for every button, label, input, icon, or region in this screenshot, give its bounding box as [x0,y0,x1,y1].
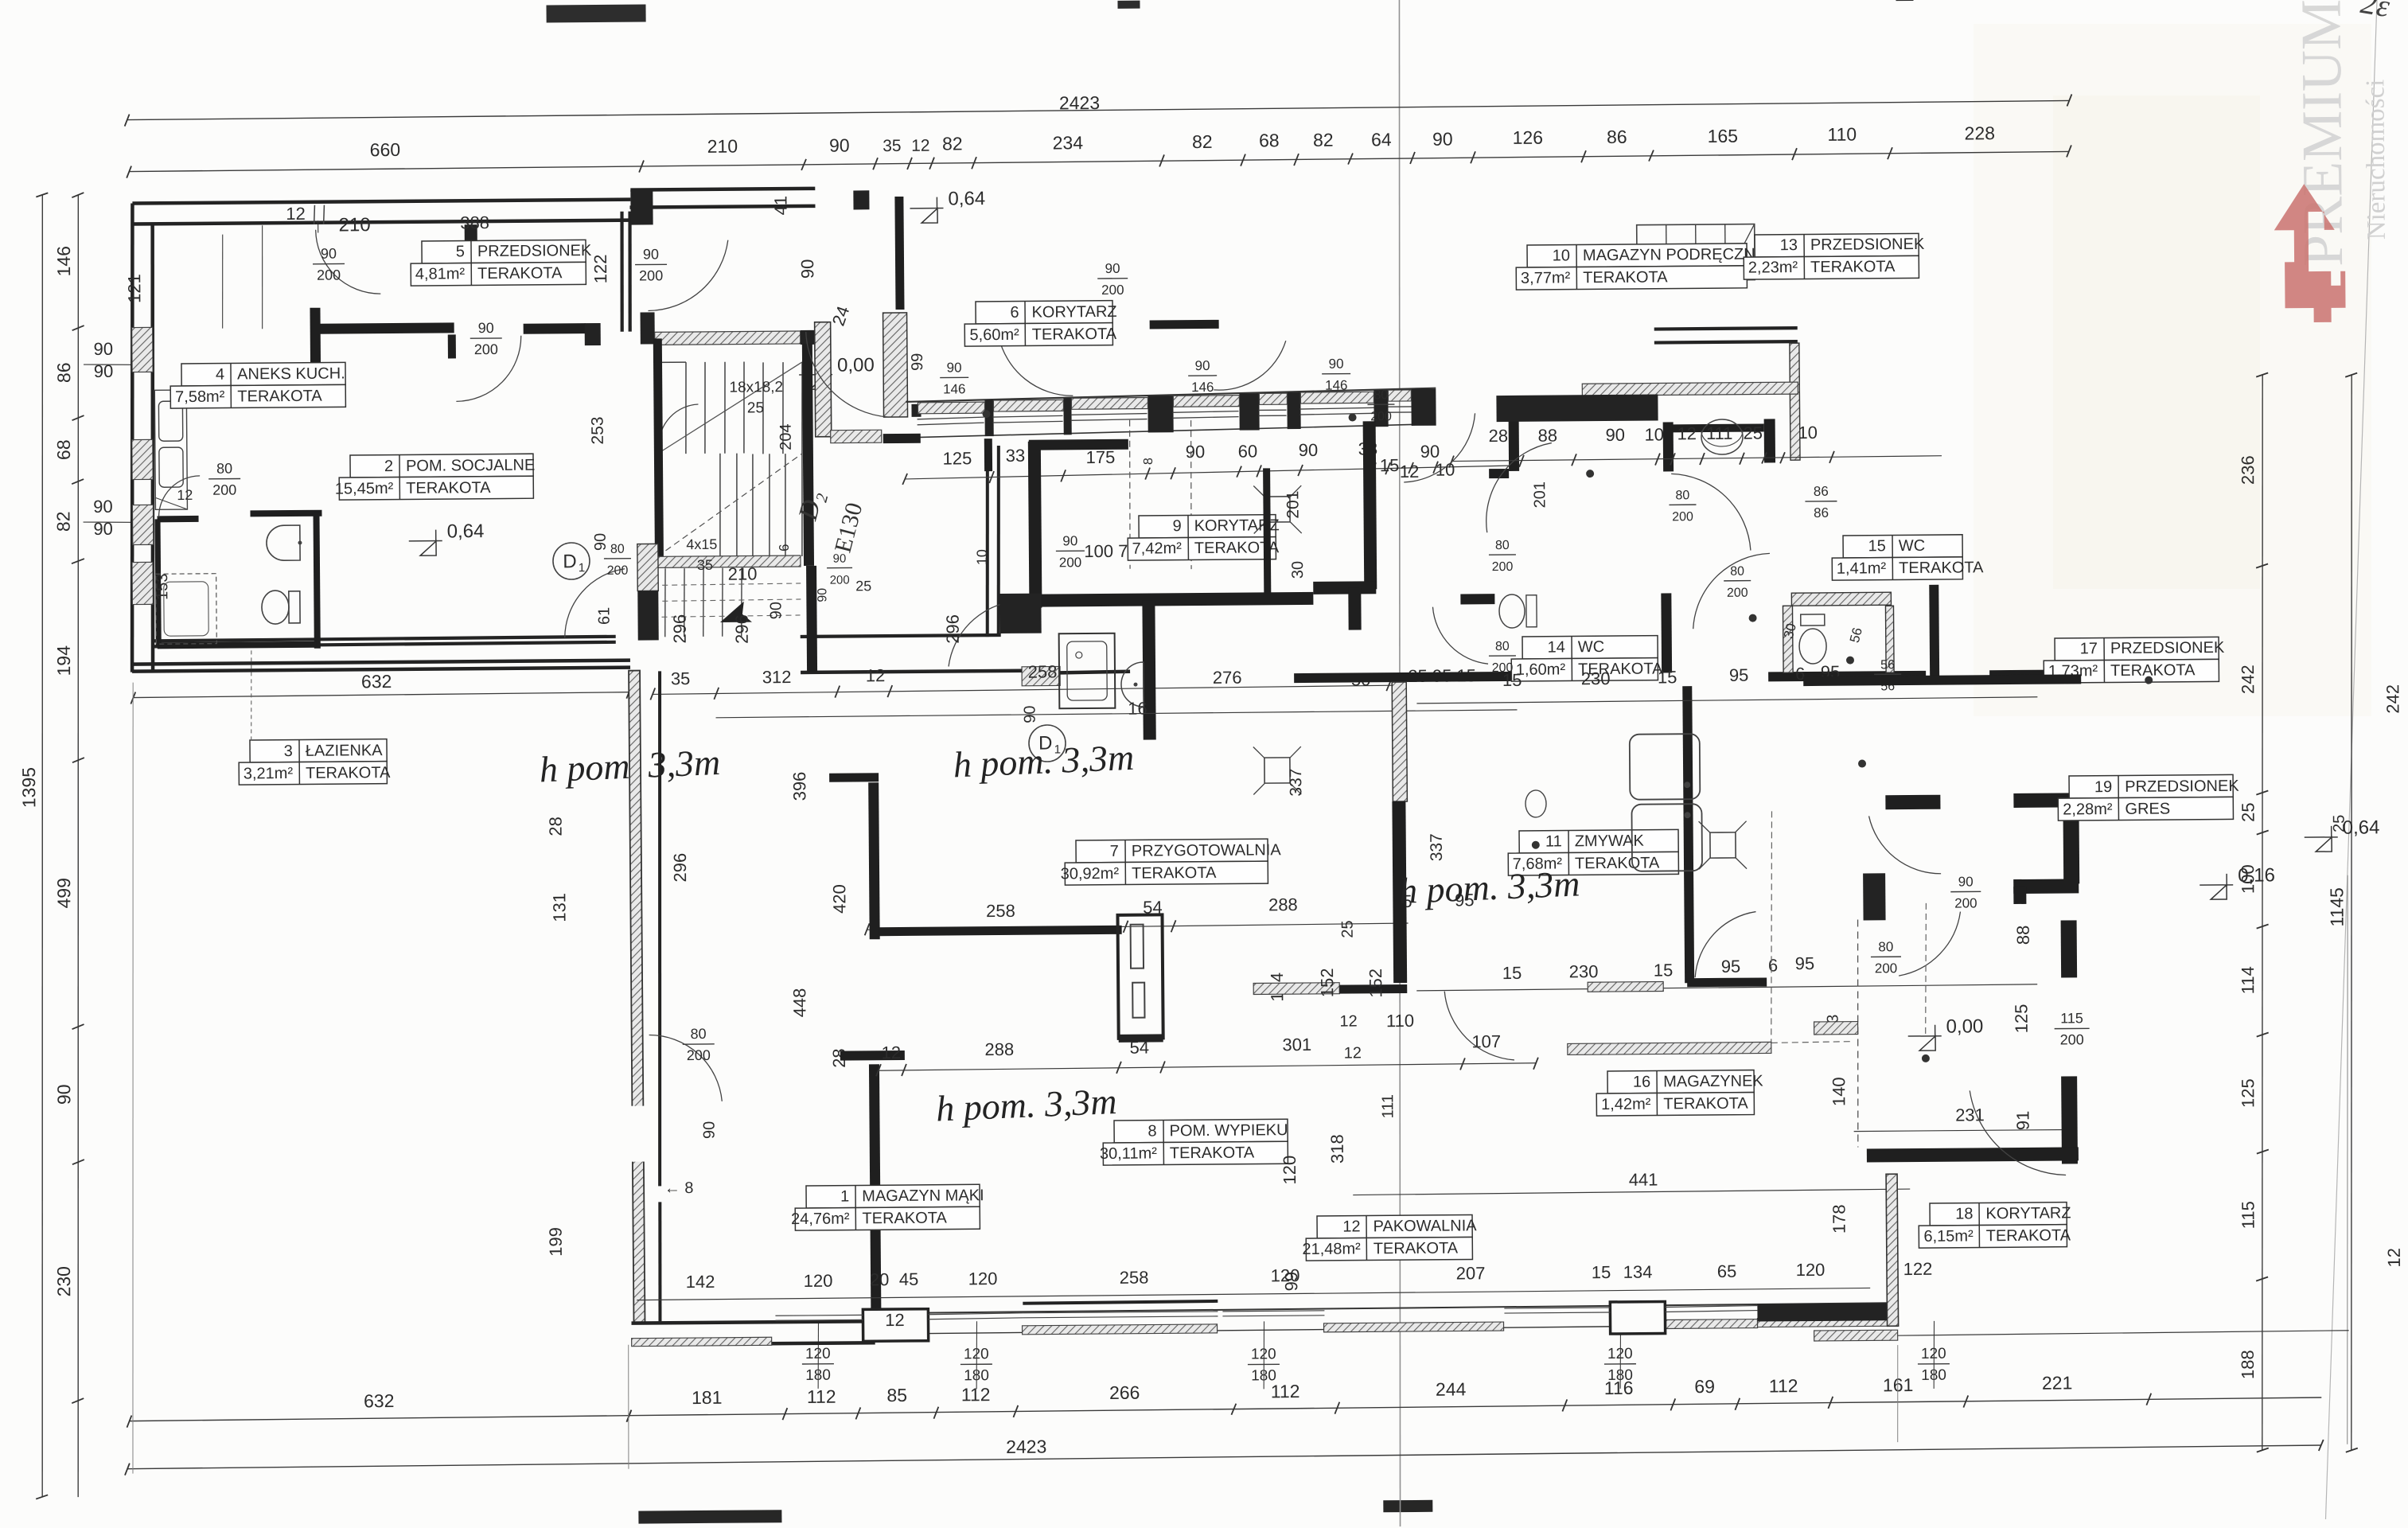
right vertical dimension chain 236/242/25/100/114/125/115/188 [2254,375,2271,1450]
room18 dashed boundary [1857,920,1860,1148]
extension thin lines [127,683,139,1474]
svg-text:121: 121 [124,274,144,303]
overall top dimension 2423 [127,100,2070,119]
svg-text:115: 115 [2238,1201,2258,1229]
left overall vertical dimension 1395 [32,195,53,1497]
vestibule walls [815,322,832,437]
leader dashed room3 [251,649,252,740]
svg-text:61: 61 [595,607,613,625]
room label 4 ANEKS KUCH [170,362,345,408]
svg-text:318: 318 [1327,1134,1347,1164]
svg-text:80: 80 [691,1026,707,1042]
room label 11 ZMYWAK [1508,829,1678,875]
svg-text:207: 207 [1456,1263,1486,1283]
svg-text:28: 28 [1488,426,1508,446]
svg-text:12: 12 [177,487,193,503]
svg-text:234: 234 [1053,132,1084,153]
svg-text:230: 230 [53,1266,74,1297]
dim row 28 88 90 10 12 111 25 10 [1451,456,1942,462]
room label 12 PAKOWALNIA [1306,1214,1472,1261]
svg-text:111: 111 [1706,423,1733,443]
svg-text:45: 45 [899,1269,919,1289]
svg-text:200: 200 [1101,283,1124,298]
bottom wall pier blocks [863,1309,928,1342]
svg-text:TERAKOTA: TERAKOTA [1132,864,1217,883]
svg-text:388: 388 [460,212,489,232]
svg-text:10: 10 [1798,423,1818,442]
svg-text:TERAKOTA: TERAKOTA [1583,268,1668,286]
svg-text:337: 337 [1428,833,1446,861]
svg-text:12: 12 [1342,1218,1360,1235]
svg-text:80: 80 [1675,489,1689,502]
svg-text:19: 19 [2094,778,2112,796]
svg-text:15: 15 [1502,670,1522,690]
svg-text:200: 200 [1672,510,1693,524]
top dimension chain 660/210/90/35/12/82/234/82/68/82/64/90/126/86/165/110/228 [129,151,2069,171]
svg-text:TERAKOTA: TERAKOTA [1373,1240,1459,1258]
svg-text:4,81m²: 4,81m² [415,265,466,283]
svg-text:MAGAZYNEK: MAGAZYNEK [1663,1072,1763,1090]
svg-text:82: 82 [942,133,963,154]
svg-text:POM. WYPIEKU: POM. WYPIEKU [1170,1121,1288,1140]
svg-text:201: 201 [1284,490,1302,518]
svg-text:288: 288 [984,1039,1014,1059]
svg-text:80: 80 [1495,640,1510,653]
room15 label box [1832,535,1962,580]
svg-text:296: 296 [670,853,690,883]
dashed opening corridor9 [1129,420,1131,569]
walls under rooms 11 [1687,977,1767,987]
svg-text:441: 441 [1629,1170,1658,1190]
svg-text:1,41m²: 1,41m² [1837,559,1887,577]
svg-text:15: 15 [1380,455,1400,475]
svg-text:200: 200 [687,1047,711,1063]
svg-text:146: 146 [1191,380,1214,395]
reference dots [982,410,990,418]
svg-text:PRZEDSIONEK: PRZEDSIONEK [2110,639,2225,657]
door arc room5 right [648,240,729,311]
svg-text:PRZEDSIONEK: PRZEDSIONEK [2125,778,2239,796]
svg-text:90: 90 [1195,358,1210,373]
room13 walls [1663,422,1674,471]
svg-text:TERAKOTA: TERAKOTA [1663,1095,1748,1113]
svg-text:5: 5 [456,243,465,260]
lower stair 4x15 [664,568,666,637]
svg-text:2,23m²: 2,23m² [1748,259,1798,276]
svg-text:152: 152 [1366,969,1385,998]
dim line above bottom wall [637,1288,1870,1300]
svg-text:204: 204 [777,423,795,450]
arc room14 [1486,443,1553,533]
svg-text:90: 90 [53,1084,74,1105]
floor drain corridor9 [1264,497,1290,522]
svg-text:134: 134 [1623,1262,1653,1282]
svg-text:95: 95 [1729,665,1749,685]
svg-text:90: 90 [797,259,817,279]
svg-text:122: 122 [590,254,610,283]
svg-text:90: 90 [1299,440,1319,460]
right wing lower hatched walls [1886,1174,1898,1326]
svg-text:276: 276 [1213,668,1242,688]
svg-text:396: 396 [789,772,809,801]
svg-text:10: 10 [1644,424,1664,444]
svg-text:125: 125 [2238,1078,2258,1108]
svg-text:91: 91 [2013,1111,2032,1131]
svg-text:178: 178 [1829,1204,1849,1234]
wall between room7 and room11 [1392,682,1407,801]
window dimension 120/180 at x=1588 [1248,1321,1280,1389]
svg-text:120: 120 [1796,1260,1825,1280]
room label 19 PRZEDSIONEK [2058,774,2233,821]
window left wall y553 [132,439,153,479]
corridor6 upper wall pieces with door arcs [1028,320,1073,329]
svg-text:14: 14 [1548,638,1565,656]
mid horizontal dim chain line [653,685,1401,694]
window left wall y412 [132,327,153,372]
toilet room15 [1799,629,1826,664]
svg-text:146: 146 [943,381,966,396]
svg-text:125: 125 [943,448,972,468]
level mark 0,64 right [2316,837,2332,852]
svg-text:632: 632 [364,1390,395,1411]
room label 6 KORYTARZ [964,301,1112,346]
svg-text:80: 80 [1730,565,1744,579]
svg-text:112: 112 [1769,1375,1798,1396]
wall right of corridor9 [1263,468,1271,593]
svg-text:0,64: 0,64 [2343,817,2380,838]
svg-text:TERAKOTA: TERAKOTA [1170,1144,1255,1163]
staircase treads [685,362,687,454]
door gap room1 left wall [627,1105,653,1161]
svg-text:0,00: 0,00 [837,354,875,376]
svg-text:95: 95 [1721,957,1741,976]
svg-text:25: 25 [1339,920,1357,937]
dim line 441 [1353,1189,1910,1195]
svg-text:12: 12 [866,665,886,685]
svg-text:90: 90 [1329,357,1344,372]
wall right of room2 and room5 [986,446,989,637]
svg-text:TERAKOTA: TERAKOTA [306,764,391,782]
svg-text:12: 12 [885,1310,905,1330]
bottom wall hatched sills [875,1327,928,1337]
svg-text:146: 146 [53,246,74,277]
svg-text:TERAKOTA: TERAKOTA [2110,661,2196,680]
svg-text:10: 10 [1553,247,1570,264]
arc room12 top [1444,991,1514,1061]
scan artifact top-center black mark [1117,1,1140,9]
svg-text:230: 230 [1581,668,1611,688]
svg-text:80: 80 [610,543,625,556]
level mark 0,64 lower middle [420,541,436,555]
door marker D1 circle 2 [1029,725,1066,762]
svg-text:1395: 1395 [18,767,39,808]
svg-text:69: 69 [1694,1376,1715,1397]
svg-text:2,28m²: 2,28m² [2063,801,2113,818]
svg-text:80: 80 [216,461,232,477]
svg-text:0,00: 0,00 [1946,1015,1984,1037]
svg-text:15: 15 [1502,963,1522,983]
svg-text:242: 242 [2383,684,2402,714]
chimney flue stack [1117,914,1163,1038]
dim line 231 [1854,1129,2069,1131]
room16 dashed walls [1769,811,1773,1043]
svg-text:4x15: 4x15 [686,536,717,552]
bathroom shower tray dashed [156,574,217,645]
svg-text:194: 194 [53,645,74,676]
svg-text:296: 296 [670,614,690,644]
svg-text:30: 30 [1289,561,1307,579]
svg-text:200: 200 [1875,961,1898,976]
scan artifact bottom black strip 1 [638,1510,781,1523]
svg-text:82: 82 [1192,131,1213,152]
left block bottom wall [153,637,616,641]
level mark 0,64 upper left area [922,209,937,223]
door arc bathroom [158,476,200,517]
svg-text:337: 337 [1287,768,1305,796]
svg-text:200: 200 [1954,895,1977,910]
arc room13 door [1404,413,1476,482]
svg-text:165: 165 [1708,126,1739,146]
svg-text:90: 90 [947,360,962,375]
svg-text:200: 200 [830,573,850,587]
svg-text:8: 8 [1148,1122,1156,1140]
svg-text:TERAKOTA: TERAKOTA [862,1210,947,1228]
svg-text:90: 90 [1062,533,1077,548]
svg-text:TERAKOTA: TERAKOTA [1032,325,1117,344]
svg-text:9: 9 [1172,517,1181,535]
svg-text:0,64: 0,64 [948,188,985,209]
svg-text:← 8: ← 8 [664,1179,694,1197]
svg-text:PRZEDSIONEK: PRZEDSIONEK [477,242,592,260]
svg-text:15: 15 [1658,667,1677,687]
dim line rooms11 row [1416,697,2037,704]
arc room18 right [1970,1090,2066,1176]
room label 10 MAGAZYN PODRECZNY [1516,244,1747,290]
svg-text:25: 25 [747,400,764,416]
lower block left exterior wall hatched [629,671,645,1323]
svg-text:200: 200 [212,482,236,498]
svg-text:90: 90 [1432,129,1453,150]
door arc room5 to room2 [456,336,522,402]
room label 5 PRZEDSIONEK [411,240,586,286]
svg-text:2: 2 [384,458,393,475]
svg-text:POM. SOCJALNE: POM. SOCJALNE [406,457,535,475]
svg-text:115: 115 [2060,1010,2083,1026]
svg-text:288: 288 [1268,895,1298,914]
svg-text:ANEKS KUCH.: ANEKS KUCH. [237,364,345,383]
bottom front wall lines [875,1303,1898,1313]
door arc room1 [649,1035,723,1102]
room11 right wall [1682,686,1694,983]
svg-text:11: 11 [1545,832,1562,850]
room1 bottom wall [631,1321,875,1323]
svg-text:258: 258 [986,901,1015,921]
svg-text:82: 82 [1313,130,1334,150]
left block exterior top wall [132,200,630,204]
room label 17 PRZEDSIONEK [2044,637,2219,683]
svg-text:90: 90 [816,588,829,602]
svg-text:16: 16 [1633,1074,1650,1091]
mid dimension 632 below left block [133,692,629,698]
svg-text:230: 230 [1569,961,1599,981]
svg-text:90: 90 [1186,442,1206,462]
bathroom room3 interior walls [158,516,199,522]
scan fold vertical line center [1388,0,1411,1526]
svg-text:↑: ↑ [313,213,323,237]
svg-text:MAGAZYN MĄKI: MAGAZYN MĄKI [862,1187,984,1205]
svg-text:188: 188 [2238,1350,2258,1379]
svg-text:200: 200 [1059,555,1082,570]
svg-text:90: 90 [833,552,847,566]
svg-text:90: 90 [1958,874,1974,889]
svg-text:10: 10 [974,549,990,565]
svg-text:110: 110 [1386,1011,1414,1031]
svg-text:GRES: GRES [2125,800,2170,817]
svg-text:200: 200 [317,267,341,283]
svg-text:h pom. 3,3m: h pom. 3,3m [935,1081,1117,1129]
svg-text:90: 90 [94,339,114,359]
window dimension 120/180 at x=1028 [801,1321,834,1389]
bathroom washbasin [267,525,300,560]
svg-text:D: D [563,551,577,572]
svg-text:25: 25 [855,578,871,594]
svg-text:13: 13 [1780,236,1798,254]
svg-text:3,77m²: 3,77m² [1521,269,1571,286]
dim line above room8 [879,1063,1536,1070]
svg-text:TERAKOTA: TERAKOTA [406,479,491,497]
svg-text:68: 68 [1259,130,1280,150]
arc room15 [1671,474,1751,552]
svg-text:15,45m²: 15,45m² [335,480,394,498]
svg-text:266: 266 [1109,1382,1140,1403]
svg-text:110: 110 [1827,124,1857,145]
svg-text:146: 146 [1325,378,1348,393]
svg-text:448: 448 [789,988,809,1018]
top-right block outer walls [1654,328,1798,329]
walls linking front band to room10 block [1509,411,1520,471]
svg-text:TERAKOTA: TERAKOTA [1986,1226,2071,1245]
bottom dimension chain 181/112/85/112/266/112/244/116/69/112/161/221 [629,1397,2321,1416]
svg-text:TERAKOTA: TERAKOTA [1899,559,1984,577]
scan fold vertical line right [2313,0,2389,1519]
svg-text:WC: WC [1578,638,1604,656]
bottom windows glazing lines [775,1314,863,1316]
svg-text:18x18,2: 18x18,2 [729,379,783,396]
svg-text:126: 126 [1513,127,1544,148]
svg-text:28: 28 [545,817,565,836]
svg-text:PRZYGOTOWALNIA: PRZYGOTOWALNIA [1132,841,1282,859]
scan artifact top-left black mark [546,4,645,22]
svg-text:200: 200 [1727,587,1748,600]
svg-text:35: 35 [883,137,902,155]
svg-text:30,92m²: 30,92m² [1061,865,1120,883]
room7 upper walls [1029,592,1313,607]
svg-text:2423: 2423 [1059,92,1100,113]
svg-text:15: 15 [1592,1262,1611,1282]
floor drain room7 [1264,758,1290,783]
svg-text:242: 242 [2238,665,2258,694]
room label 13 PRZEDSIONEK [1744,233,1919,279]
svg-text:80: 80 [1373,388,1388,402]
svg-text:244: 244 [1436,1378,1467,1399]
svg-text:6: 6 [777,544,792,552]
svg-text:1: 1 [840,1188,849,1206]
svg-text:7,42m²: 7,42m² [1132,540,1183,557]
svg-text:54: 54 [1129,1038,1149,1058]
svg-text:253: 253 [589,416,607,444]
room label 18 KORYTARZ [1919,1203,2067,1248]
arc room17 [1693,553,1771,629]
svg-text:MAGAZYN PODRĘCZNY: MAGAZYN PODRĘCZNY [1583,245,1766,264]
svg-text:90: 90 [1605,425,1625,445]
svg-text:88: 88 [2013,926,2033,945]
svg-text:420: 420 [829,884,849,914]
svg-text:7,58m²: 7,58m² [175,388,225,406]
svg-text:30,11m²: 30,11m² [1100,1144,1157,1163]
arc room18 left [1898,912,1961,976]
svg-text:6: 6 [1768,955,1778,975]
svg-text:114: 114 [2238,966,2258,994]
svg-text:16: 16 [1128,699,1148,719]
svg-text:80: 80 [1878,939,1893,954]
stairwell walls hatched [655,331,801,345]
room label 8 POM WYPIEKU [1103,1119,1288,1165]
svg-text:1,42m²: 1,42m² [1601,1096,1651,1113]
svg-text:35: 35 [697,557,713,573]
svg-text:86: 86 [53,362,74,383]
room7 washbasin [1121,662,1144,707]
bathroom toilet [262,591,289,624]
level mark 0,16 right [2211,885,2227,899]
arc room19 top [1869,816,1942,875]
toilet room14 [1499,594,1525,628]
svg-text:64: 64 [1371,129,1392,150]
svg-text:h pom. 3,3m: h pom. 3,3m [1398,863,1580,911]
svg-text:90: 90 [701,1121,719,1139]
svg-text:12: 12 [911,137,930,155]
svg-text:6: 6 [1010,304,1019,322]
svg-text:15: 15 [1654,960,1674,980]
svg-text:90: 90 [93,497,113,516]
svg-text:312: 312 [762,667,792,687]
walls rooms 14/15 area [1460,594,1494,604]
right overall vertical dimension 1145 [2343,375,2360,1450]
svg-text:95: 95 [1795,953,1815,973]
svg-text:200: 200 [607,564,629,578]
svg-text:12: 12 [1344,1044,1362,1062]
svg-text:99: 99 [909,353,926,371]
svg-text:120: 120 [968,1269,998,1288]
svg-text:12: 12 [2384,1248,2404,1268]
svg-text:18: 18 [1955,1205,1973,1222]
svg-text:221: 221 [2042,1372,2073,1393]
dim line 258/54/288 row [867,923,1409,930]
svg-text:80: 80 [1495,539,1510,552]
floor drain room11 [1710,832,1736,858]
svg-text:12: 12 [881,1043,901,1062]
construction thin lines room5 [222,235,224,329]
svg-text:107: 107 [1471,1031,1501,1051]
svg-text:60: 60 [1238,441,1258,461]
svg-text:0,64: 0,64 [447,520,485,542]
svg-text:TERAKOTA: TERAKOTA [1575,855,1660,873]
svg-text:h pom. 3,3m: h pom. 3,3m [953,737,1135,785]
svg-text:12: 12 [1677,423,1697,443]
level mark 0,00 stairs [810,375,826,389]
svg-text:200: 200 [2060,1031,2084,1047]
svg-text:112: 112 [807,1386,836,1407]
wall under room10 area [1294,671,1626,683]
